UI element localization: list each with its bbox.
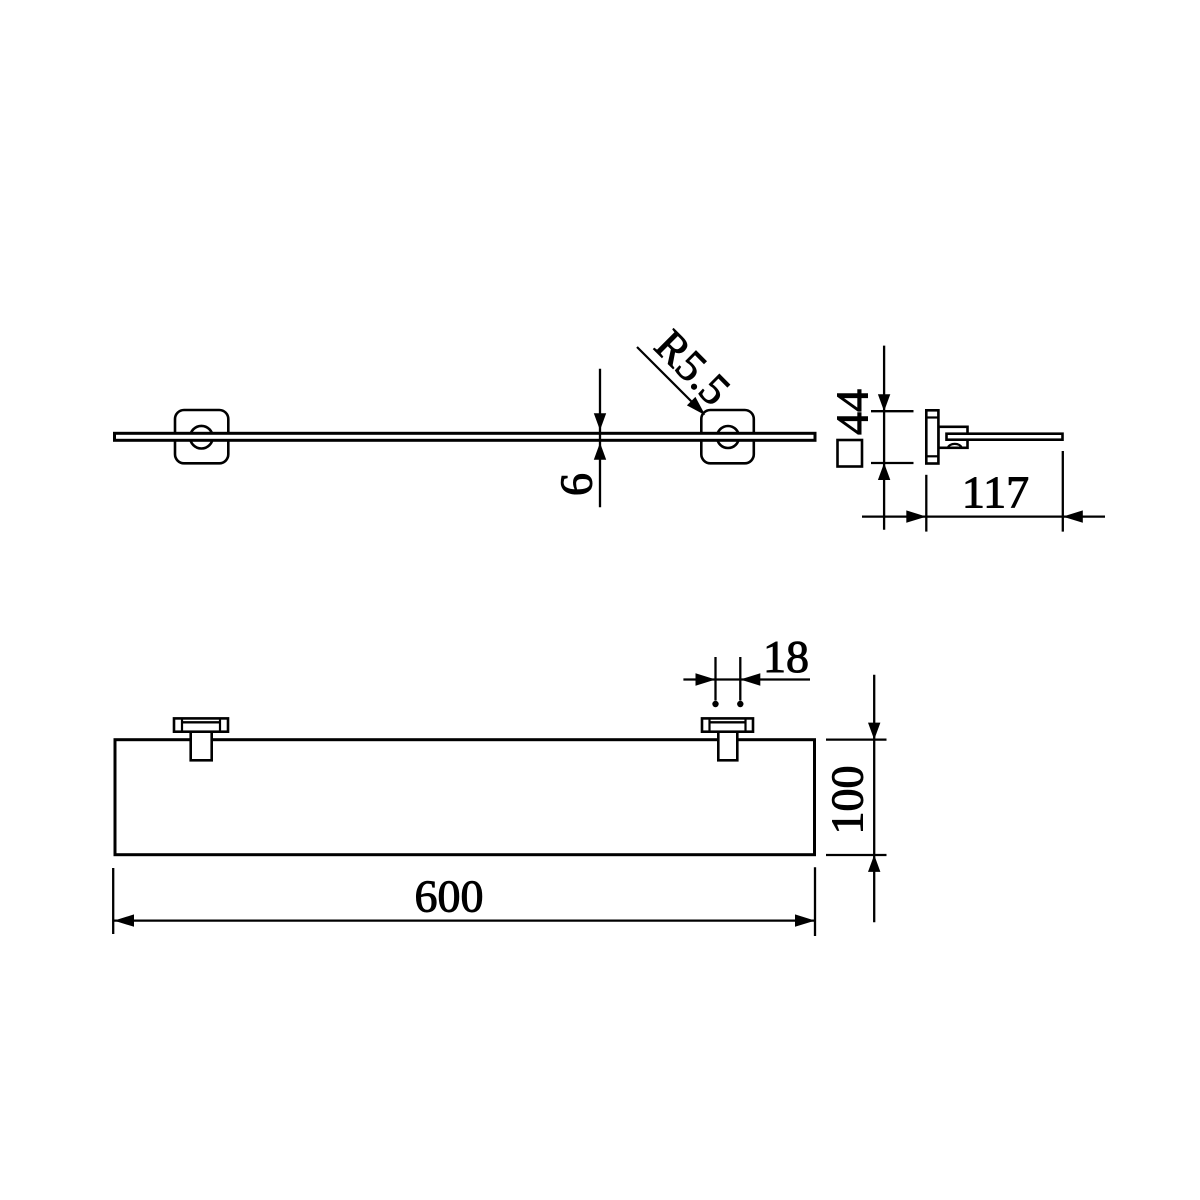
- svg-text:117: 117: [962, 467, 1029, 518]
- svg-text:100: 100: [822, 766, 873, 835]
- svg-text:44: 44: [827, 389, 878, 435]
- svg-text:6: 6: [551, 473, 602, 496]
- svg-text:18: 18: [763, 631, 809, 682]
- svg-text:600: 600: [415, 871, 484, 922]
